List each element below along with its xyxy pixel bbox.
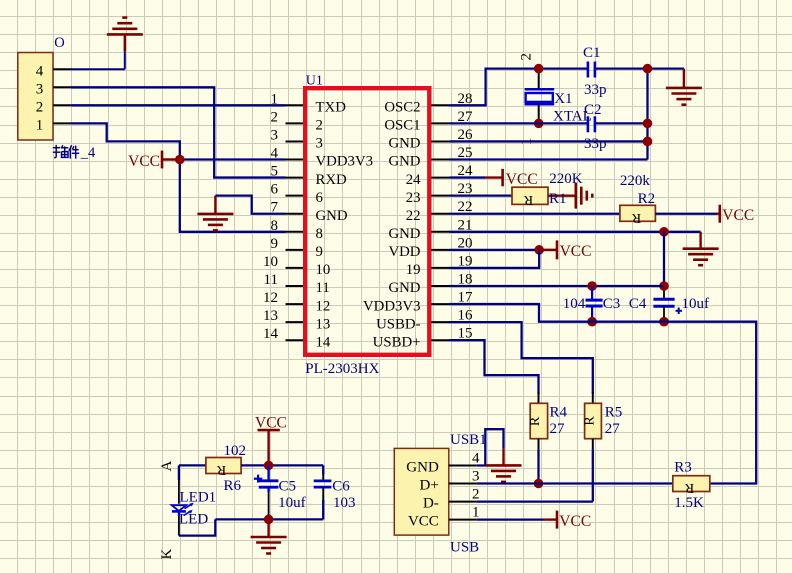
svg-text:C4: C4 xyxy=(629,296,647,312)
svg-text:10uf: 10uf xyxy=(682,296,710,312)
svg-text:220K: 220K xyxy=(549,171,583,187)
svg-text:11: 11 xyxy=(316,280,330,296)
svg-text:3: 3 xyxy=(36,81,44,97)
svg-text:24: 24 xyxy=(406,172,421,188)
svg-text:4: 4 xyxy=(472,450,480,466)
svg-text:R: R xyxy=(216,462,226,477)
svg-text:VCC: VCC xyxy=(128,153,160,170)
svg-text:2: 2 xyxy=(271,109,279,125)
svg-text:R: R xyxy=(523,192,533,207)
svg-text:1: 1 xyxy=(271,91,279,107)
svg-text:5: 5 xyxy=(271,164,279,180)
svg-text:OSC2: OSC2 xyxy=(384,100,420,116)
svg-text:11: 11 xyxy=(264,272,278,288)
svg-text:VCC: VCC xyxy=(559,513,591,530)
svg-text:14: 14 xyxy=(263,326,279,342)
svg-text:8: 8 xyxy=(271,218,279,234)
svg-text:13: 13 xyxy=(316,316,331,332)
svg-text:GND: GND xyxy=(388,226,420,242)
svg-text:VDD3V3: VDD3V3 xyxy=(316,154,374,170)
svg-text:GND: GND xyxy=(388,154,420,170)
svg-text:R1: R1 xyxy=(549,191,567,207)
svg-text:LED1: LED1 xyxy=(180,490,217,506)
svg-text:6: 6 xyxy=(316,190,323,206)
svg-text:27: 27 xyxy=(605,421,621,437)
svg-text:O: O xyxy=(54,35,64,51)
svg-text:C6: C6 xyxy=(332,478,350,494)
svg-text:3: 3 xyxy=(472,468,480,484)
svg-text:10: 10 xyxy=(316,262,331,278)
svg-text:6: 6 xyxy=(271,182,279,198)
svg-text:TXD: TXD xyxy=(316,100,347,116)
svg-text:OSC1: OSC1 xyxy=(384,118,420,134)
svg-text:C1: C1 xyxy=(583,45,601,61)
svg-text:27: 27 xyxy=(550,421,566,437)
svg-text:13: 13 xyxy=(263,308,278,324)
svg-text:R5: R5 xyxy=(605,405,623,421)
svg-text:K: K xyxy=(159,549,175,560)
svg-text:9: 9 xyxy=(271,236,279,252)
svg-text:USBD-: USBD- xyxy=(376,316,420,332)
svg-text:9: 9 xyxy=(316,244,323,260)
svg-text:VCC: VCC xyxy=(408,513,439,529)
svg-text:3: 3 xyxy=(271,127,279,143)
svg-text:2: 2 xyxy=(518,53,534,61)
svg-text:GND: GND xyxy=(388,136,420,152)
svg-text:7: 7 xyxy=(271,200,279,216)
svg-text:PL-2303HX: PL-2303HX xyxy=(305,361,379,377)
svg-text:LED: LED xyxy=(179,512,208,528)
svg-text:USB: USB xyxy=(450,540,479,556)
svg-text:X1: X1 xyxy=(554,91,572,107)
svg-text:19: 19 xyxy=(406,262,421,278)
svg-text:103: 103 xyxy=(333,495,356,511)
svg-text:33p: 33p xyxy=(584,136,607,152)
svg-text:2: 2 xyxy=(316,118,323,134)
svg-text:1: 1 xyxy=(36,117,44,133)
svg-text:33p: 33p xyxy=(584,82,607,98)
svg-text:3: 3 xyxy=(316,136,323,152)
svg-text:U1: U1 xyxy=(306,74,323,89)
svg-text:GND: GND xyxy=(388,280,420,296)
svg-text:D-: D- xyxy=(423,495,439,511)
svg-text:R: R xyxy=(631,210,641,225)
svg-text:22: 22 xyxy=(406,208,421,224)
svg-text:VCC: VCC xyxy=(722,207,754,224)
svg-text:_4: _4 xyxy=(80,145,96,161)
svg-text:C5: C5 xyxy=(279,478,297,494)
svg-text:RXD: RXD xyxy=(316,172,348,188)
svg-text:R: R xyxy=(684,480,694,495)
svg-text:D+: D+ xyxy=(420,477,439,493)
svg-text:R2: R2 xyxy=(638,191,656,207)
svg-text:10: 10 xyxy=(263,254,278,270)
svg-text:R: R xyxy=(583,416,598,426)
svg-text:102: 102 xyxy=(224,443,247,459)
svg-text:R: R xyxy=(528,416,543,426)
svg-text:C2: C2 xyxy=(584,102,602,118)
svg-text:1: 1 xyxy=(472,504,480,520)
svg-text:C3: C3 xyxy=(603,296,621,312)
svg-text:A: A xyxy=(159,461,175,472)
svg-text:23: 23 xyxy=(406,190,421,206)
svg-text:VCC: VCC xyxy=(560,243,592,260)
svg-text:104: 104 xyxy=(563,296,586,312)
svg-text:GND: GND xyxy=(316,208,348,224)
svg-text:14: 14 xyxy=(316,334,331,350)
svg-text:10uf: 10uf xyxy=(278,495,306,511)
svg-text:12: 12 xyxy=(263,290,278,306)
svg-text:220k: 220k xyxy=(620,173,651,189)
svg-text:4: 4 xyxy=(271,146,279,162)
svg-text:4: 4 xyxy=(36,63,44,79)
svg-text:12: 12 xyxy=(316,298,331,314)
svg-text:2: 2 xyxy=(36,99,44,115)
svg-text:8: 8 xyxy=(316,226,323,242)
svg-text:R3: R3 xyxy=(674,460,692,476)
svg-text:VDD3V3: VDD3V3 xyxy=(363,298,421,314)
svg-text:2: 2 xyxy=(472,486,480,502)
svg-text:VCC: VCC xyxy=(506,171,538,188)
svg-text:GND: GND xyxy=(406,459,439,475)
svg-text:R4: R4 xyxy=(550,405,568,421)
svg-text:R6: R6 xyxy=(224,478,242,494)
svg-text:VDD: VDD xyxy=(388,244,420,260)
svg-text:USBD+: USBD+ xyxy=(373,334,421,350)
svg-text:USB1: USB1 xyxy=(450,432,487,448)
svg-text:1.5K: 1.5K xyxy=(674,495,704,511)
